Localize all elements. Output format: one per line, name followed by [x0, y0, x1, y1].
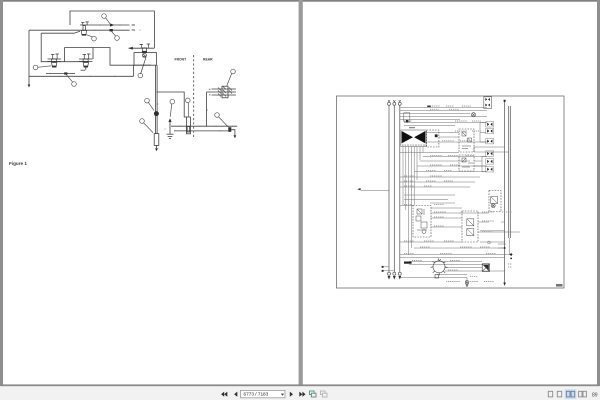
svg-text:FRONT: FRONT: [175, 57, 188, 61]
svg-text:89: 89: [592, 392, 598, 398]
svg-text:REAR: REAR: [203, 57, 213, 61]
svg-text:Figure 1: Figure 1: [9, 161, 27, 166]
svg-text:6773 / 7183: 6773 / 7183: [244, 392, 269, 397]
